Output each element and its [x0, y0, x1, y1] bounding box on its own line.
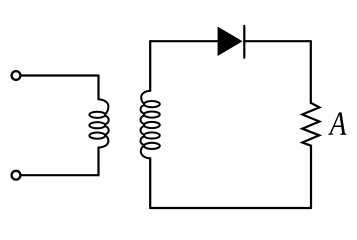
wire: primary vertical upper lead [97, 76, 99, 100]
terminal bottom-left (open circle) [12, 171, 21, 180]
inductor L2 loop 1 [144, 101, 160, 107]
diode D1 anode triangle [218, 27, 243, 56]
inductor L2 connector 2-3 [141, 115, 145, 124]
wire: primary vertical lower lead [97, 148, 99, 176]
inductor L2 loop 4 [144, 132, 160, 138]
wire: top terminal to primary top [21, 74, 99, 76]
inductor L2 loop 2 [144, 111, 160, 117]
diode D1 cathode bar [243, 26, 245, 58]
inductor L1 loop 2 [89, 122, 105, 128]
wire: secondary vertical upper lead [149, 41, 151, 91]
label A (ammeter/resistor label) [328, 112, 346, 134]
inductor L2 connector 3-4 [141, 126, 145, 135]
inductor L2 connector 4-5 [141, 136, 145, 145]
wire: secondary vertical lower lead [149, 158, 151, 208]
inductor L2 loop 3 [144, 122, 160, 128]
terminal top-left (open circle) [12, 71, 21, 80]
inductor L1 connector 2-3 [105, 126, 109, 135]
wire: right vertical upper lead [310, 41, 312, 103]
wire: bottom terminal to primary bottom [21, 174, 99, 176]
inductor L1 loop 3 [89, 133, 105, 139]
inductor L2 secondary top hook [141, 91, 150, 104]
wire: secondary bottom segment [150, 207, 311, 209]
resistor A zigzag [302, 103, 319, 146]
inductor L1 primary top hook [99, 99, 109, 114]
inductor L1 connector 1-2 [105, 116, 109, 125]
inductor L1 bottom hook [99, 135, 109, 147]
inductor L2 connector 1-2 [141, 105, 145, 114]
wire: right vertical lower lead [310, 146, 312, 208]
inductor L2 bottom hook [141, 146, 150, 159]
inductor L1 loop 1 [89, 112, 105, 118]
inductor L2 loop 5 [144, 143, 160, 149]
wire: secondary top left segment [150, 40, 217, 42]
wire: secondary top right segment (cathode to corner) [244, 40, 310, 42]
